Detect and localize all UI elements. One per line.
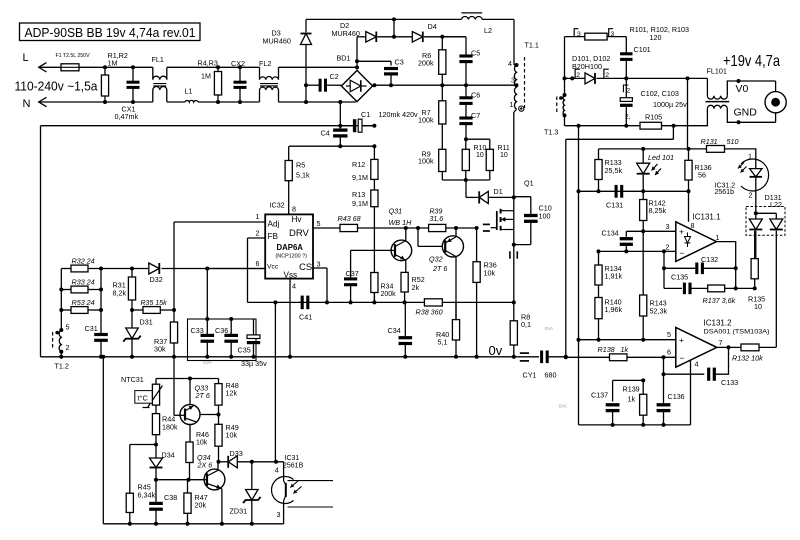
svg-text:2,: 2, [625, 114, 631, 121]
resistor R133 25,5k [595, 149, 623, 191]
svg-text:C1: C1 [361, 110, 370, 119]
svg-text:−: − [680, 248, 685, 258]
svg-text:0,47mk: 0,47mk [115, 112, 139, 121]
wire C137 branch [613, 379, 644, 381]
svg-text:C132: C132 [701, 255, 718, 264]
wire R131 line [599, 148, 689, 150]
junction [737, 79, 741, 83]
svg-text:2k: 2k [412, 283, 420, 292]
svg-text:510: 510 [727, 137, 739, 146]
svg-text:Vss: Vss [284, 271, 298, 280]
board link marks [483, 224, 490, 231]
svg-text:R4,R3: R4,R3 [198, 59, 218, 68]
svg-text:R138: R138 [598, 345, 615, 354]
svg-text:R105: R105 [645, 112, 662, 121]
junction [59, 328, 63, 332]
svg-text:100k: 100k [418, 157, 434, 166]
IC U IC32 DAP6A NCP1200 [265, 201, 313, 280]
svg-text:7: 7 [719, 338, 723, 347]
svg-text:8: 8 [691, 221, 695, 230]
svg-text:C5: C5 [471, 49, 480, 58]
svg-text:25,5k: 25,5k [605, 166, 623, 175]
capacitor C5 [442, 37, 480, 85]
svg-text:9,1M: 9,1M [352, 199, 368, 208]
transformer T1.1 primary winding [508, 41, 539, 112]
svg-text:T1.1: T1.1 [525, 41, 539, 50]
svg-text:R139: R139 [623, 385, 640, 394]
resistor R4,R3 1M [198, 59, 222, 103]
junction [130, 308, 134, 312]
svg-text:3: 3 [577, 31, 581, 38]
svg-text:8,25k: 8,25k [649, 206, 667, 215]
wire [173, 357, 175, 416]
junction [577, 124, 581, 128]
svg-text:t°C: t°C [138, 394, 149, 403]
svg-text:1: 1 [716, 233, 720, 242]
wire [626, 77, 687, 79]
probe marks [510, 251, 517, 258]
svg-text:+: + [679, 335, 684, 345]
wire C131 line [579, 190, 689, 192]
wire fb net [663, 251, 665, 288]
resistor R48 12k [215, 379, 239, 415]
NTC block bottom rail [103, 523, 283, 525]
junction [187, 478, 191, 482]
svg-text:R34: R34 [381, 284, 394, 291]
resistor R143 52,3k [640, 231, 668, 339]
transformer T1.3 secondary winding [544, 95, 565, 137]
wire pin4 Vss [289, 279, 291, 357]
resistor R43 68 [338, 214, 361, 232]
svg-text:3: 3 [666, 222, 670, 231]
wire gnd jog [565, 139, 567, 356]
junction [577, 338, 581, 342]
wire [167, 66, 260, 68]
svg-text:C37: C37 [346, 269, 359, 278]
junction [238, 65, 242, 69]
svg-text:C135: C135 [671, 272, 688, 281]
svg-text:2: 2 [666, 243, 670, 252]
svg-text:Vcc: Vcc [267, 264, 279, 271]
svg-text:4: 4 [292, 282, 296, 291]
junction [464, 178, 468, 182]
resistor R142 8,25k [640, 191, 667, 231]
svg-text:33µ 35v: 33µ 35v [241, 359, 267, 368]
svg-text:F1 T2.5L 250V: F1 T2.5L 250V [56, 53, 91, 59]
svg-text:B20H100: B20H100 [572, 62, 602, 71]
transistor Q33 2T 6 [174, 379, 219, 443]
svg-text:1k: 1k [621, 345, 629, 354]
junction pin4 [515, 63, 519, 67]
MOSFET Q1 [491, 179, 534, 231]
capacitor C4 [321, 102, 348, 146]
capacitor C132 [664, 255, 736, 274]
diode D1 [466, 187, 514, 204]
svg-text:DRV: DRV [289, 228, 310, 239]
resistor R105 shunt [640, 112, 662, 129]
wire [206, 269, 208, 336]
svg-text:V0: V0 [736, 83, 749, 95]
junction [734, 266, 738, 270]
svg-text:1k: 1k [628, 395, 636, 404]
svg-text:R53 24: R53 24 [72, 298, 95, 307]
wire y146 [289, 145, 374, 147]
junction [564, 355, 568, 359]
wire pin5 DRV [313, 227, 340, 229]
diode D31 zener [123, 310, 152, 357]
svg-text:SVA: SVA [559, 404, 568, 409]
svg-text:DAP6A: DAP6A [277, 243, 304, 252]
diode D3 MUR460 [263, 19, 312, 85]
wire pin3 CS [313, 267, 327, 269]
common-mode choke FL2 [259, 59, 279, 102]
svg-text:R12: R12 [352, 160, 365, 169]
junction [577, 189, 581, 193]
op-amp IC131.1 [676, 213, 721, 262]
junction [103, 65, 107, 69]
junction [753, 286, 757, 290]
capacitor C37 [344, 269, 359, 302]
fuse F1 [56, 53, 91, 71]
svg-text:10k: 10k [226, 431, 238, 440]
svg-text:52,3k: 52,3k [650, 306, 668, 315]
transistor Q32 2T 6 [418, 228, 464, 320]
capacitor C102,C103 1000u 25v [620, 78, 687, 125]
wire [356, 37, 358, 68]
capacitor C35 33u 35v [238, 319, 268, 368]
wire pin7 output [717, 346, 741, 348]
junction [250, 522, 254, 526]
resistor R45 6,34k [126, 483, 155, 524]
optocoupler IC31.2 2561b LED [715, 152, 769, 213]
svg-text:D4: D4 [428, 22, 437, 31]
resistor R11 10 [466, 139, 510, 180]
junction [440, 35, 444, 39]
chassis marks [520, 353, 529, 361]
diode pair D131 L22 [746, 193, 785, 347]
resistor R49 10k [215, 415, 239, 462]
junction [205, 355, 209, 359]
resistor R135 10 [748, 231, 765, 311]
wire [513, 245, 515, 303]
svg-text:1: 1 [256, 212, 260, 221]
junction [128, 522, 132, 526]
svg-text:0,1: 0,1 [521, 320, 531, 329]
junction [99, 267, 103, 271]
svg-text:Hv: Hv [292, 215, 303, 224]
svg-text:C3: C3 [395, 58, 404, 67]
svg-text:ADP-90SB BB 19v 4,74a rev.01: ADP-90SB BB 19v 4,74a rev.01 [25, 25, 196, 40]
capacitor C131 [606, 185, 623, 210]
svg-text:6: 6 [256, 259, 260, 268]
junction [338, 100, 342, 104]
junction [188, 377, 192, 381]
junction [641, 147, 645, 151]
svg-text:IC31: IC31 [285, 455, 300, 462]
wire left border [40, 126, 42, 357]
svg-text:10: 10 [500, 152, 508, 159]
svg-text:Q32: Q32 [429, 255, 443, 264]
wire L input [39, 66, 61, 68]
svg-text:10k: 10k [484, 268, 496, 277]
wire N input [39, 101, 153, 103]
svg-text:GND: GND [734, 107, 758, 119]
svg-text:12k: 12k [226, 389, 238, 398]
resistor R1,R2 1M [101, 51, 127, 102]
capacitor CX2 [231, 59, 247, 102]
junction [288, 355, 292, 359]
wire pin4 [690, 361, 692, 425]
capacitor C38 [149, 480, 177, 524]
inductor L2 [462, 13, 493, 35]
capacitor C136 [657, 374, 685, 425]
svg-text:2: 2 [627, 88, 631, 95]
diode ZD31 zener [230, 462, 261, 524]
svg-text:R39: R39 [430, 209, 443, 216]
svg-text:1: 1 [748, 152, 752, 161]
junction [597, 249, 601, 253]
junction [624, 124, 628, 128]
junction [216, 65, 220, 69]
junction [154, 522, 158, 526]
svg-text:2561b: 2561b [715, 189, 735, 196]
wire pin1 Adj [174, 221, 265, 223]
svg-text:10: 10 [754, 302, 762, 311]
common-mode choke FL101 [688, 67, 776, 126]
wire HV rail [373, 84, 517, 86]
resistor R9 100k [418, 149, 446, 171]
svg-text:2: 2 [749, 191, 753, 200]
junction [454, 355, 458, 359]
svg-text:1,96k: 1,96k [605, 305, 623, 314]
resistor R7 100k [418, 85, 446, 149]
svg-text:2T 6: 2T 6 [195, 391, 210, 400]
resistor R36 10k [473, 228, 497, 357]
svg-text:0v: 0v [489, 343, 503, 358]
svg-text:L22: L22 [770, 200, 782, 209]
thermistor NTC31 [121, 375, 163, 408]
svg-text:R137 3,6k: R137 3,6k [703, 296, 736, 305]
resistor R6 200k [418, 37, 446, 85]
junction [355, 65, 359, 69]
wire Q1 drain/source [513, 197, 515, 244]
svg-text:2: 2 [576, 72, 580, 79]
junction [416, 226, 420, 230]
gnd bus [578, 126, 580, 425]
0v rail [41, 356, 514, 358]
terminal N [23, 97, 47, 110]
output connector [765, 81, 786, 122]
svg-text:R13: R13 [352, 190, 365, 199]
resistor R38 360 [416, 299, 443, 317]
wire FB line [248, 301, 425, 303]
svg-text:10k: 10k [196, 439, 208, 446]
svg-text:D33: D33 [230, 449, 243, 458]
resistor R46 10k [186, 432, 209, 480]
junction [686, 76, 690, 80]
junction [512, 195, 516, 199]
svg-text:Adj: Adj [268, 220, 280, 229]
wire NTC top line [156, 378, 219, 380]
svg-text:R38 360: R38 360 [416, 308, 443, 317]
resistor R8 0,1 [510, 302, 531, 356]
secondary return rail [565, 125, 641, 127]
resistor R44 180k [152, 405, 178, 444]
svg-text:C101: C101 [634, 45, 651, 54]
svg-text:D31: D31 [140, 318, 153, 327]
junction [220, 522, 224, 526]
wire HV- bus [41, 125, 375, 127]
capacitor CX1 0,47mk [115, 67, 140, 121]
svg-text:5,1k: 5,1k [296, 171, 310, 180]
junction [641, 378, 645, 382]
junction [512, 355, 516, 359]
resistor R138 1k [598, 345, 629, 361]
junction [372, 144, 376, 148]
resistor R52 2k [401, 272, 425, 302]
svg-text:4: 4 [508, 59, 512, 68]
svg-text:3: 3 [317, 260, 321, 269]
wire pin3 line [626, 230, 676, 232]
svg-text:2: 2 [256, 229, 260, 238]
resistor R40 5,1 [436, 302, 460, 356]
svg-text:C33: C33 [191, 326, 204, 335]
diode D101,D102 B20H100 [565, 54, 627, 84]
diode D33 [219, 449, 284, 468]
junction [217, 413, 221, 417]
wire [305, 85, 307, 102]
inductor L1 [185, 87, 199, 103]
svg-text:3: 3 [611, 31, 615, 38]
junction [130, 355, 134, 359]
terminal L [23, 52, 47, 72]
svg-text:L: L [23, 52, 29, 64]
junction [131, 65, 135, 69]
svg-text:D1: D1 [494, 187, 503, 196]
junction [252, 355, 256, 359]
capacitor CY1 680 [523, 351, 566, 380]
svg-text:C38: C38 [164, 493, 177, 502]
resistor R136 56 [685, 149, 712, 191]
wire [60, 269, 62, 331]
capacitor C10 100 [514, 197, 552, 245]
svg-text:100k: 100k [418, 115, 434, 124]
resistor R35 15k [132, 300, 174, 313]
capacitor C7 [459, 103, 480, 139]
common-mode choke FL1 [152, 55, 167, 102]
svg-text:56: 56 [698, 171, 706, 180]
junction [392, 35, 396, 39]
svg-text:C133: C133 [721, 378, 738, 387]
svg-text:IC131.1: IC131.1 [693, 213, 722, 222]
svg-text:5,1: 5,1 [438, 338, 448, 347]
wire [514, 356, 539, 358]
junction [154, 478, 158, 482]
capacitor C134 [602, 228, 633, 251]
svg-text:9,1M: 9,1M [352, 173, 368, 182]
svg-text:1M: 1M [108, 59, 118, 68]
resistor R101,R102,R103 120 [565, 25, 690, 42]
junction [172, 355, 176, 359]
junction [372, 83, 376, 87]
svg-text:FL1: FL1 [152, 55, 164, 64]
junction [205, 317, 209, 321]
svg-text:120mk 420v: 120mk 420v [379, 110, 419, 119]
svg-text:Led 101: Led 101 [648, 153, 674, 162]
capacitor C133 [664, 347, 739, 387]
capacitor C137 [591, 391, 620, 425]
optocoupler IC31 2561B phototransistor [272, 455, 333, 524]
svg-text:BD1: BD1 [337, 54, 351, 63]
capacitor C41 [299, 296, 312, 322]
junction [563, 93, 567, 97]
wire [279, 66, 357, 68]
wire pin6 Vcc [207, 268, 265, 270]
junction [512, 300, 516, 304]
svg-text:C34: C34 [388, 326, 401, 335]
svg-text:1,91k: 1,91k [605, 271, 623, 280]
junction [250, 460, 254, 464]
wire [514, 109, 517, 197]
svg-text:SVA: SVA [203, 360, 212, 365]
resistor R32 24 [71, 257, 95, 272]
junction [563, 76, 567, 80]
junction [464, 83, 468, 87]
bridge rectifier BD1 [337, 54, 373, 102]
diode D34 [150, 445, 175, 480]
svg-text:D34: D34 [162, 451, 175, 460]
svg-text:IC32: IC32 [270, 201, 285, 210]
junction [99, 355, 103, 359]
svg-text:D32: D32 [150, 275, 163, 284]
resistor R137 3,6k [690, 285, 755, 305]
svg-text:180k: 180k [162, 422, 178, 431]
resistor R140 1,96k [595, 285, 623, 340]
capacitor C33 [191, 326, 215, 357]
resistor R47 20k [184, 480, 208, 524]
svg-text:C41: C41 [299, 313, 312, 322]
junction [727, 345, 731, 349]
junction [355, 59, 359, 63]
svg-text:C137: C137 [591, 391, 608, 400]
wire [513, 19, 515, 65]
svg-text:2: 2 [66, 343, 70, 352]
junction [389, 83, 393, 87]
svg-text:DSA001 (TSM103A): DSA001 (TSM103A) [704, 329, 770, 336]
capacitor C135 [664, 272, 690, 294]
resistor R31 8,2k [113, 269, 136, 311]
LED Led 101 [637, 149, 674, 191]
svg-text:C6: C6 [471, 91, 480, 100]
op-amp IC131.2 [676, 318, 770, 367]
svg-text:NTC31: NTC31 [121, 375, 144, 384]
junction [172, 308, 176, 312]
wire [465, 180, 467, 197]
wire Q34 base line [156, 479, 204, 481]
container box C33/C36/C35 [188, 319, 257, 361]
svg-text:R32 24: R32 24 [72, 257, 95, 266]
wire pin6 line [566, 356, 676, 358]
resistor R37 30k [154, 310, 178, 357]
svg-text:C35: C35 [238, 346, 251, 355]
wire [60, 352, 62, 357]
svg-text:6,34k: 6,34k [138, 490, 156, 499]
junction [273, 300, 277, 304]
junction [641, 423, 645, 427]
wire DRV line [358, 227, 429, 229]
svg-text:3: 3 [277, 510, 281, 519]
junction [662, 423, 666, 427]
